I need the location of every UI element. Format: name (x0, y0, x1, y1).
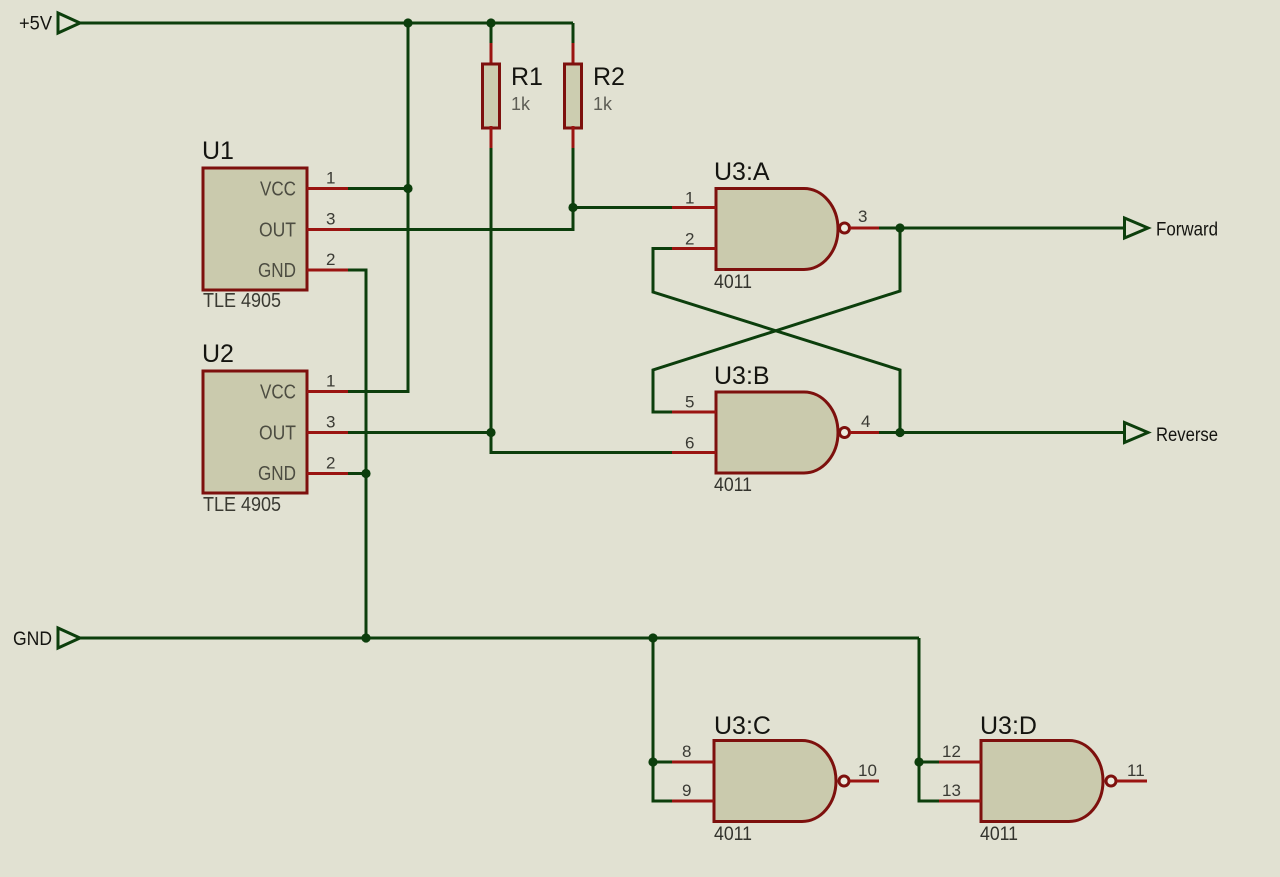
resistor R2 (565, 63, 625, 128)
pin 4 of U3:B output (850, 412, 881, 433)
wire node to U3:D pin 12 (919, 761, 940, 764)
wire vertical x408 from +5V rail to U2 VCC (349, 23, 408, 392)
resistor R1 (483, 63, 543, 128)
wire R1 top lead (490, 23, 493, 45)
pin 3 of U1 (OUT) (307, 210, 350, 230)
wire node down and right to U3:B pin 6 (491, 433, 672, 453)
pin 1 of U1 (VCC) (307, 169, 350, 189)
wire R1 bottom lead down to U2 OUT row (490, 126, 493, 150)
svg-text:4: 4 (861, 412, 870, 431)
pin 12 of U3:D (939, 742, 981, 762)
wire GND bus horizontal (80, 637, 919, 640)
svg-text:11: 11 (1127, 761, 1145, 780)
node junction at (408,188.5) (403, 184, 412, 193)
op-amp U3:C nand gate body (714, 712, 836, 845)
svg-text:R2: R2 (593, 63, 625, 91)
svg-text:GND: GND (258, 463, 296, 485)
wire node down to U1 OUT row (349, 208, 573, 230)
svg-text:4011: 4011 (980, 824, 1018, 845)
svg-text:U3:C: U3:C (714, 712, 771, 740)
svg-text:VCC: VCC (260, 179, 296, 201)
svg-text:3: 3 (326, 210, 335, 229)
node junction at (653,638) (648, 633, 657, 642)
node junction at (900,228) (895, 223, 904, 232)
pin 2 of U3:A (672, 230, 716, 249)
power terminal +5V (19, 13, 80, 35)
wire cross-couple U3:A out to U3:B pin5 (653, 228, 900, 412)
svg-text:U3:B: U3:B (714, 362, 770, 390)
svg-text:1: 1 (685, 189, 694, 208)
node junction at (653,762) (648, 757, 657, 766)
svg-text:VCC: VCC (260, 382, 296, 404)
svg-text:4011: 4011 (714, 824, 752, 845)
svg-text:2: 2 (685, 230, 694, 249)
IC U2 TLE4905 (202, 340, 307, 516)
pin 6 of U3:B (672, 434, 716, 453)
svg-text:4011: 4011 (714, 475, 752, 496)
op-amp U3:D nand gate body (980, 712, 1103, 845)
node invert bubble U3:D (1106, 776, 1116, 786)
pin 9 of U3:C (672, 781, 714, 801)
pin 3 of U2 (OUT) (307, 413, 350, 433)
pin 2 of U2 (GND) (307, 454, 350, 474)
svg-text:12: 12 (942, 742, 961, 761)
svg-text:6: 6 (685, 434, 694, 453)
wire U1 VCC to x408 vertical (348, 187, 408, 190)
svg-text:R1: R1 (511, 63, 543, 91)
node invert bubble U3:C (839, 776, 849, 786)
wire node to U3:C pin 8 (653, 761, 674, 764)
svg-text:1: 1 (326, 169, 335, 188)
IC U1 TLE4905 (202, 137, 307, 312)
svg-text:U3:D: U3:D (980, 712, 1037, 740)
wire node to U3:A pin 1 (573, 206, 672, 209)
svg-text:5: 5 (685, 393, 694, 412)
svg-text:U2: U2 (202, 340, 234, 368)
svg-text:U1: U1 (202, 137, 234, 165)
svg-text:Reverse: Reverse (1156, 425, 1218, 446)
node junction at (491,432.5) (486, 428, 495, 437)
node junction at (573,207.5) (568, 203, 577, 212)
svg-text:OUT: OUT (259, 423, 296, 445)
svg-text:TLE 4905: TLE 4905 (203, 494, 281, 516)
svg-text:3: 3 (858, 207, 867, 226)
pin 5 of U3:B (672, 393, 716, 413)
wire U1 GND down ground bus (348, 270, 366, 638)
ground terminal GND (13, 628, 80, 650)
svg-text:2: 2 (326, 454, 335, 473)
svg-text:1: 1 (326, 372, 335, 391)
svg-text:OUT: OUT (259, 220, 296, 242)
svg-text:13: 13 (942, 781, 961, 800)
wire +5V rail top (80, 22, 573, 25)
svg-text:10: 10 (858, 761, 877, 780)
node junction at (408,23) (403, 18, 412, 27)
svg-text:4011: 4011 (714, 272, 752, 293)
node junction at (366,473.5) (361, 469, 370, 478)
output terminal Forward (1125, 218, 1219, 241)
pin 10 of U3:C output (850, 761, 880, 781)
node junction at (491,23) (486, 18, 495, 27)
pin 11 of U3:D output (1117, 761, 1148, 781)
svg-text:GND: GND (258, 260, 296, 282)
wire R2 top lead (572, 23, 575, 45)
wire U3:B output to Reverse terminal (879, 431, 1125, 434)
pin 3 of U3:A output (850, 207, 881, 228)
node invert bubble U3:A (840, 223, 850, 233)
pin 1 of U2 (VCC) (307, 372, 350, 392)
svg-text:1k: 1k (511, 94, 531, 114)
wire GND bus down to U3:D inputs (919, 638, 940, 801)
svg-text:8: 8 (682, 742, 691, 761)
wire U2 VCC green part (348, 390, 408, 393)
svg-text:TLE 4905: TLE 4905 (203, 290, 281, 312)
svg-text:U3:A: U3:A (714, 158, 770, 186)
wire GND bus down to U3:C inputs (653, 638, 674, 801)
node junction at (919,762) (914, 757, 923, 766)
svg-text:1k: 1k (593, 94, 613, 114)
svg-text:Forward: Forward (1156, 220, 1218, 241)
pin 13 of U3:D (939, 781, 981, 801)
node junction at (366,638) (361, 633, 370, 642)
wire U2 OUT to node (491,432.5) (348, 431, 491, 434)
svg-text:2: 2 (326, 250, 335, 269)
pin 2 of U1 (GND) (307, 250, 350, 270)
svg-text:9: 9 (682, 781, 691, 800)
wire U3:A output to Forward terminal (879, 227, 1125, 230)
svg-text:3: 3 (326, 413, 335, 432)
wire R2 bottom lead to node (573,207.5) (572, 126, 575, 150)
pin 1 of U3:A (672, 189, 716, 208)
wire U2 GND to ground bus (348, 472, 366, 475)
op-amp U3:A nand gate body (714, 158, 838, 293)
node invert bubble U3:B (840, 428, 850, 438)
node junction at (900,433) (895, 428, 904, 437)
pin 8 of U3:C (672, 742, 714, 762)
svg-text:+5V: +5V (19, 14, 52, 35)
op-amp U3:B nand gate body (714, 362, 838, 496)
output terminal Reverse (1125, 423, 1219, 447)
svg-text:GND: GND (13, 629, 52, 650)
wire cross-couple U3:B out to U3:A pin2 (653, 249, 900, 434)
